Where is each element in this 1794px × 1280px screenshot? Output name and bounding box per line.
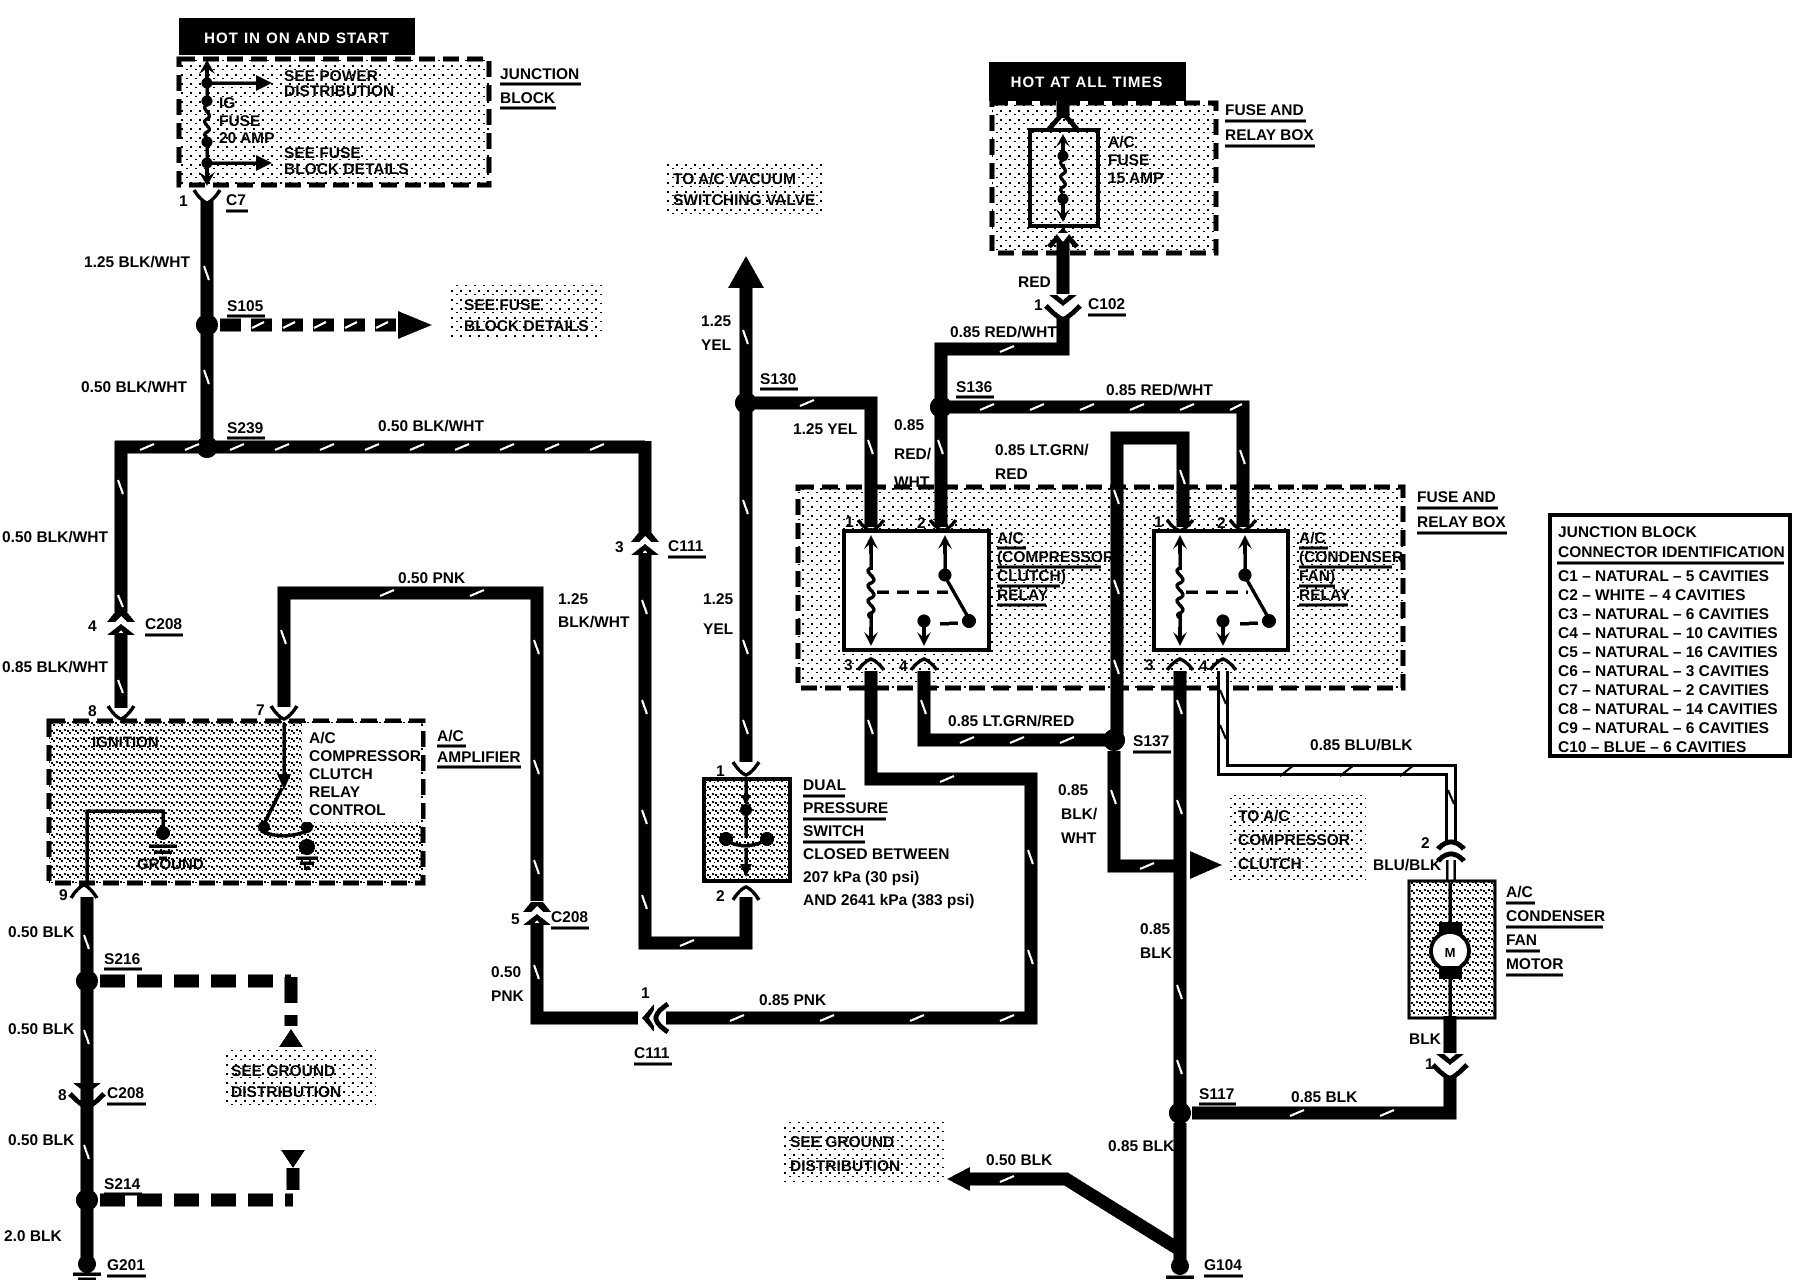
wire 0.50 PNK from amplifier pin 7 bbox=[281, 590, 539, 901]
svg-text:RELAY: RELAY bbox=[309, 784, 361, 801]
ground G104 bbox=[1166, 1257, 1243, 1280]
node S137 bbox=[1103, 729, 1171, 752]
svg-text:1: 1 bbox=[179, 193, 188, 210]
svg-text:G201: G201 bbox=[107, 1257, 145, 1274]
fuse and relay box middle bbox=[798, 487, 1403, 688]
wire S117 to G104 bbox=[1174, 1123, 1187, 1260]
fuse A/C 15A box bbox=[1030, 130, 1098, 226]
svg-text:1: 1 bbox=[1034, 297, 1043, 314]
svg-text:S214: S214 bbox=[104, 1176, 141, 1193]
svg-text:CLOSED BETWEEN: CLOSED BETWEEN bbox=[803, 846, 949, 863]
svg-text:S137: S137 bbox=[1133, 733, 1169, 750]
wire U1 pin 4 to S137 bbox=[921, 671, 1108, 743]
svg-text:WHT: WHT bbox=[894, 474, 930, 491]
svg-text:C2 – WHITE – 4 CAVITIES: C2 – WHITE – 4 CAVITIES bbox=[1558, 587, 1745, 604]
svg-text:2: 2 bbox=[1421, 835, 1430, 852]
amplifier internal ground symbol bbox=[149, 846, 177, 858]
node S239 bbox=[196, 420, 265, 458]
fuse IG squiggle bbox=[205, 105, 210, 137]
svg-text:DISTRIBUTION: DISTRIBUTION bbox=[284, 83, 394, 100]
svg-text:SEE FUSE: SEE FUSE bbox=[284, 145, 361, 162]
svg-text:1: 1 bbox=[1425, 1056, 1434, 1073]
svg-text:S239: S239 bbox=[227, 420, 264, 437]
arrow down internal bottom bbox=[199, 166, 215, 186]
node S136 bbox=[930, 379, 994, 418]
pin 7 connector bbox=[256, 702, 297, 719]
label 0.50 PNK vertical bbox=[491, 964, 525, 1005]
wire C208-4 to amplifier pin 8 bbox=[118, 633, 123, 708]
label A/C COMPRESSOR CLUTCH RELAY CONTROL bbox=[302, 723, 421, 822]
svg-text:9: 9 bbox=[59, 887, 68, 904]
junction block connector identification table bbox=[1550, 515, 1790, 756]
wire pin 9 down to G201 bbox=[84, 897, 89, 1258]
svg-text:0.50 BLK: 0.50 BLK bbox=[8, 924, 75, 941]
relay U1 A/C compressor clutch relay box bbox=[844, 531, 989, 650]
connector fuse bottom bbox=[1049, 231, 1077, 247]
svg-text:S136: S136 bbox=[956, 379, 993, 396]
connector C208 pin 5 bbox=[511, 902, 589, 928]
wire dashed S214 branch with up arrow bbox=[100, 1150, 305, 1200]
wire 0.50 BLK to G104 diagonal bbox=[966, 1176, 1180, 1250]
junction block box bbox=[179, 59, 489, 185]
relay U1 pin 1 connector bbox=[845, 514, 884, 531]
banner HOT IN ON AND START bbox=[179, 18, 415, 55]
pin 8 connector bbox=[88, 703, 134, 720]
svg-text:0.85 BLK/WHT: 0.85 BLK/WHT bbox=[2, 659, 108, 676]
wire S136 down to compressor relay pin 2 bbox=[938, 413, 943, 527]
svg-text:BLOCK: BLOCK bbox=[500, 90, 556, 107]
svg-text:A/C: A/C bbox=[1108, 134, 1135, 151]
svg-text:HOT IN ON AND START: HOT IN ON AND START bbox=[204, 30, 390, 47]
svg-text:C208: C208 bbox=[551, 909, 588, 926]
node S214 bbox=[76, 1176, 142, 1211]
svg-text:AMPLIFIER: AMPLIFIER bbox=[437, 749, 521, 766]
svg-text:C111: C111 bbox=[634, 1045, 670, 1062]
wire S239 left leg down to C208 bbox=[118, 441, 123, 612]
svg-text:0.50: 0.50 bbox=[491, 964, 521, 981]
svg-text:S216: S216 bbox=[104, 951, 141, 968]
svg-text:C3 – NATURAL – 6 CAVITIES: C3 – NATURAL – 6 CAVITIES bbox=[1558, 606, 1769, 623]
svg-text:G104: G104 bbox=[1204, 1257, 1242, 1274]
wire junction-block internal vertical bbox=[205, 70, 209, 180]
svg-text:C10 – BLUE – 6 CAVITIES: C10 – BLUE – 6 CAVITIES bbox=[1558, 739, 1746, 756]
svg-text:A/C: A/C bbox=[309, 730, 336, 747]
svg-text:C6 – NATURAL – 3 CAVITIES: C6 – NATURAL – 3 CAVITIES bbox=[1558, 663, 1769, 680]
svg-text:RELAY BOX: RELAY BOX bbox=[1417, 514, 1506, 531]
arrow up internal top bbox=[199, 60, 215, 80]
svg-text:CONTROL: CONTROL bbox=[309, 802, 386, 819]
svg-text:0.85: 0.85 bbox=[894, 417, 925, 434]
wire to vacuum valve with up arrow bbox=[728, 256, 764, 403]
svg-text:RELAY BOX: RELAY BOX bbox=[1225, 127, 1314, 144]
svg-text:RED: RED bbox=[995, 466, 1028, 483]
wire C208-5 down to C111-1 corner bbox=[534, 923, 638, 1018]
connector C208 pin 4 bbox=[88, 612, 183, 635]
svg-text:DUAL: DUAL bbox=[803, 777, 846, 794]
svg-text:1.25: 1.25 bbox=[703, 591, 734, 608]
svg-text:FUSE AND: FUSE AND bbox=[1225, 102, 1304, 119]
wire 0.85 BLU/BLK outlined condenser pin 4 to motor bbox=[1220, 671, 1454, 845]
label DUAL PRESSURE SWITCH bbox=[803, 777, 974, 909]
svg-text:SWITCH: SWITCH bbox=[803, 823, 864, 840]
relay U1 pin 2 connector bbox=[917, 515, 956, 532]
svg-text:S117: S117 bbox=[1199, 1086, 1234, 1103]
connector C111 pin 1 horizontal bbox=[634, 985, 672, 1064]
svg-text:1: 1 bbox=[716, 763, 725, 780]
svg-text:C208: C208 bbox=[107, 1085, 144, 1102]
svg-text:HOT AT ALL TIMES: HOT AT ALL TIMES bbox=[1011, 74, 1164, 91]
label 0.85 RED/WHT vertical bbox=[894, 417, 932, 491]
svg-text:WHT: WHT bbox=[1061, 830, 1097, 847]
svg-text:FUSE AND: FUSE AND bbox=[1417, 489, 1496, 506]
svg-text:A/C: A/C bbox=[437, 728, 464, 745]
wire connector 1 to S117 bbox=[1192, 1076, 1450, 1116]
svg-text:8: 8 bbox=[88, 703, 97, 720]
svg-text:FAN: FAN bbox=[1506, 932, 1537, 949]
svg-text:7: 7 bbox=[256, 702, 265, 719]
svg-text:(COMPRESSOR: (COMPRESSOR bbox=[997, 549, 1114, 566]
connector motor pin 1 bbox=[1425, 1054, 1467, 1078]
label TO A/C COMPRESSOR CLUTCH bbox=[1230, 795, 1366, 880]
svg-text:C102: C102 bbox=[1088, 296, 1125, 313]
svg-text:0.50 BLK: 0.50 BLK bbox=[8, 1132, 75, 1149]
relay U1 switch branch bbox=[917, 535, 976, 646]
svg-text:SEE GROUND: SEE GROUND bbox=[231, 1063, 335, 1080]
A/C amplifier box bbox=[49, 721, 423, 883]
label A/C (COMPRESSOR CLUTCH) RELAY bbox=[992, 520, 1114, 608]
svg-text:0.50 BLK/WHT: 0.50 BLK/WHT bbox=[81, 379, 187, 396]
label 0.85 LT.GRN/ RED bbox=[995, 442, 1089, 483]
label 0.85 BLK vertical bbox=[1140, 921, 1173, 962]
label IG FUSE 20 AMP bbox=[219, 95, 274, 147]
svg-text:CLUTCH): CLUTCH) bbox=[997, 568, 1066, 585]
svg-text:C4 – NATURAL – 10 CAVITIES: C4 – NATURAL – 10 CAVITIES bbox=[1558, 625, 1778, 642]
svg-text:C9 – NATURAL – 6 CAVITIES: C9 – NATURAL – 6 CAVITIES bbox=[1558, 720, 1769, 737]
svg-text:5: 5 bbox=[511, 911, 520, 928]
relay U2 pin 3 connector bbox=[1145, 657, 1193, 674]
label A/C AMPLIFIER bbox=[437, 728, 521, 767]
svg-text:RELAY: RELAY bbox=[1299, 587, 1351, 604]
label SEE GROUND DISTRIBUTION left bbox=[224, 1049, 376, 1107]
svg-text:2: 2 bbox=[716, 888, 725, 905]
svg-text:0.50 BLK: 0.50 BLK bbox=[8, 1021, 75, 1038]
svg-text:0.50 PNK: 0.50 PNK bbox=[398, 570, 466, 587]
svg-text:SWITCHING VALVE: SWITCHING VALVE bbox=[673, 192, 815, 209]
svg-text:AND 2641 kPa (383 psi): AND 2641 kPa (383 psi) bbox=[803, 892, 974, 909]
svg-text:0.85 LT.GRN/RED: 0.85 LT.GRN/RED bbox=[948, 713, 1074, 730]
svg-text:C8 – NATURAL – 14 CAVITIES: C8 – NATURAL – 14 CAVITIES bbox=[1558, 701, 1778, 718]
svg-text:C5 – NATURAL – 16 CAVITIES: C5 – NATURAL – 16 CAVITIES bbox=[1558, 644, 1778, 661]
node S117 bbox=[1169, 1086, 1236, 1124]
wire C102 to S136 bbox=[941, 317, 1063, 403]
relay U2 coil-switch dashed link bbox=[1186, 590, 1248, 594]
label SEE FUSE BLOCK DETAILS internal bbox=[284, 145, 409, 178]
relay U2 switch branch bbox=[1216, 535, 1276, 646]
svg-text:RELAY: RELAY bbox=[997, 587, 1049, 604]
svg-text:BLK: BLK bbox=[1140, 945, 1173, 962]
svg-text:15 AMP: 15 AMP bbox=[1108, 170, 1163, 187]
svg-text:0.85 RED/WHT: 0.85 RED/WHT bbox=[1106, 382, 1213, 399]
wire motor to connector 1 bbox=[1444, 1016, 1457, 1053]
relay U2 pin 4 connector bbox=[1199, 658, 1236, 675]
relay U2 pin 2 connector bbox=[1217, 515, 1256, 532]
svg-text:IGNITION: IGNITION bbox=[92, 734, 159, 751]
node S105 bbox=[196, 298, 265, 336]
label FUSE AND RELAY BOX top bbox=[1225, 102, 1315, 146]
svg-text:COMPRESSOR: COMPRESSOR bbox=[309, 748, 421, 765]
svg-text:1: 1 bbox=[641, 985, 650, 1002]
svg-text:BLK/WHT: BLK/WHT bbox=[558, 614, 630, 631]
wire fuse to C102 bbox=[1057, 233, 1070, 294]
svg-text:1.25: 1.25 bbox=[701, 313, 732, 330]
amplifier relay-control circuit bbox=[258, 723, 318, 868]
svg-text:CONNECTOR IDENTIFICATION: CONNECTOR IDENTIFICATION bbox=[1558, 544, 1785, 561]
label SEE GROUND DISTRIBUTION right bbox=[782, 1122, 945, 1182]
svg-text:DISTRIBUTION: DISTRIBUTION bbox=[790, 1158, 900, 1175]
svg-text:C208: C208 bbox=[145, 616, 182, 633]
label 1.25 YEL upper bbox=[701, 313, 732, 354]
svg-text:2: 2 bbox=[1217, 515, 1226, 532]
svg-text:COMPRESSOR: COMPRESSOR bbox=[1238, 832, 1350, 849]
svg-text:M: M bbox=[1445, 945, 1456, 960]
svg-text:0.85 LT.GRN/: 0.85 LT.GRN/ bbox=[995, 442, 1089, 459]
A/C condenser fan motor box bbox=[1409, 881, 1495, 1018]
label TO A/C VACUUM SWITCHING VALVE bbox=[665, 160, 825, 215]
svg-text:A/C: A/C bbox=[1299, 530, 1326, 547]
banner HOT AT ALL TIMES bbox=[989, 62, 1186, 101]
label SEE FUSE BLOCK DETAILS bbox=[451, 285, 603, 337]
relay U1 pin 4 connector bbox=[899, 658, 937, 675]
relay U1 coil branch bbox=[864, 535, 878, 646]
svg-text:RED/: RED/ bbox=[894, 446, 932, 463]
svg-text:SEE GROUND: SEE GROUND bbox=[790, 1134, 894, 1151]
wire C111-3 down to dual pressure switch pin 2 bbox=[642, 553, 746, 946]
svg-text:1.25 YEL: 1.25 YEL bbox=[793, 421, 857, 438]
node dot 1 bbox=[202, 78, 213, 89]
svg-text:8: 8 bbox=[58, 1087, 67, 1104]
svg-text:0.85 BLU/BLK: 0.85 BLU/BLK bbox=[1310, 737, 1413, 754]
label JUNCTION BLOCK bbox=[500, 66, 581, 108]
node dot 4 bbox=[202, 158, 213, 169]
svg-text:CLUTCH: CLUTCH bbox=[309, 766, 373, 783]
node S130 bbox=[735, 371, 798, 414]
svg-text:GROUND: GROUND bbox=[137, 856, 204, 873]
label SEE POWER DISTRIBUTION bbox=[284, 68, 394, 100]
svg-text:BLOCK DETAILS: BLOCK DETAILS bbox=[464, 318, 589, 335]
label A/C CONDENSER FAN MOTOR bbox=[1506, 884, 1605, 975]
connector C102 pin 1 bbox=[1034, 295, 1126, 319]
fuse and relay box top bbox=[992, 103, 1216, 253]
arrow see ground distribution left-pointing bbox=[947, 1167, 970, 1191]
dual pressure switch box bbox=[704, 779, 790, 881]
motor M1 internals bbox=[1431, 883, 1469, 1018]
pin 2 connector pressure switch bbox=[716, 887, 759, 905]
svg-text:S130: S130 bbox=[760, 371, 796, 388]
svg-text:JUNCTION BLOCK: JUNCTION BLOCK bbox=[1558, 524, 1697, 541]
svg-text:BLK/: BLK/ bbox=[1061, 806, 1098, 823]
svg-text:FUSE: FUSE bbox=[1108, 152, 1149, 169]
svg-text:0.85: 0.85 bbox=[1058, 782, 1089, 799]
svg-text:2.0 BLK: 2.0 BLK bbox=[4, 1228, 63, 1245]
svg-text:S105: S105 bbox=[227, 298, 264, 315]
pressure switch internals bbox=[719, 781, 774, 877]
connector BLU/BLK pin 2 bbox=[1421, 835, 1464, 861]
svg-text:0.85 BLK: 0.85 BLK bbox=[1108, 1138, 1175, 1155]
node dot 2 IG bbox=[202, 96, 213, 107]
wire S130 to relay pin 1 bbox=[752, 400, 873, 527]
svg-text:0.85: 0.85 bbox=[1140, 921, 1171, 938]
svg-text:0.85 BLK: 0.85 BLK bbox=[1291, 1089, 1358, 1106]
svg-text:4: 4 bbox=[899, 658, 908, 675]
svg-text:1.25: 1.25 bbox=[558, 591, 589, 608]
wire S130 down to pressure switch pin 1 bbox=[743, 409, 748, 762]
svg-text:IG: IG bbox=[219, 95, 235, 112]
svg-text:(CONDENSER: (CONDENSER bbox=[1299, 549, 1403, 566]
wire dashed S105 see-fuse arrow bbox=[220, 311, 432, 339]
svg-text:3: 3 bbox=[615, 539, 624, 556]
node dot 3 bbox=[202, 137, 213, 148]
svg-text:BLK: BLK bbox=[1409, 1031, 1442, 1048]
svg-text:1.25 BLK/WHT: 1.25 BLK/WHT bbox=[84, 254, 190, 271]
amplifier internal ground wire bbox=[87, 811, 170, 881]
svg-text:TO A/C: TO A/C bbox=[1238, 808, 1290, 825]
connector C7 bbox=[179, 190, 248, 211]
wire BLU/BLK connector to motor box bbox=[1446, 860, 1456, 884]
fuse element bbox=[1056, 134, 1070, 222]
svg-text:YEL: YEL bbox=[703, 621, 733, 638]
svg-text:FUSE: FUSE bbox=[219, 113, 260, 130]
svg-text:0.50 BLK/WHT: 0.50 BLK/WHT bbox=[2, 529, 108, 546]
svg-text:4: 4 bbox=[1199, 658, 1208, 675]
svg-text:MOTOR: MOTOR bbox=[1506, 956, 1563, 973]
wire S239 right leg down to C111-3 bbox=[639, 441, 652, 533]
connector C111 pin 3 bbox=[615, 532, 706, 557]
svg-text:2: 2 bbox=[917, 515, 926, 532]
wire S239 horizontal bbox=[115, 441, 645, 454]
wire S136 to condenser relay pin 2 bbox=[950, 404, 1245, 527]
arrow to A/C compressor clutch bbox=[1190, 851, 1222, 879]
svg-text:SEE FUSE: SEE FUSE bbox=[464, 297, 541, 314]
svg-text:YEL: YEL bbox=[701, 337, 731, 354]
connector banner to fuse bbox=[1049, 101, 1077, 129]
svg-text:BLOCK DETAILS: BLOCK DETAILS bbox=[284, 161, 409, 178]
ground G201 bbox=[73, 1255, 146, 1280]
wire 0.85 BLK condenser pin 3 to S117 bbox=[1177, 671, 1182, 1113]
relay U2 coil branch bbox=[1173, 535, 1187, 646]
svg-text:20 AMP: 20 AMP bbox=[219, 130, 274, 147]
svg-text:DISTRIBUTION: DISTRIBUTION bbox=[231, 1084, 341, 1101]
svg-text:RED: RED bbox=[1018, 274, 1051, 291]
svg-text:A/C: A/C bbox=[1506, 884, 1533, 901]
wire dashed S216 to ground-distribution arrow bbox=[100, 977, 303, 1047]
svg-text:BLU/BLK: BLU/BLK bbox=[1373, 857, 1442, 874]
svg-text:0.50 BLK: 0.50 BLK bbox=[986, 1152, 1053, 1169]
relay U2 pin 1 connector bbox=[1154, 514, 1193, 531]
svg-text:C7: C7 bbox=[226, 192, 246, 209]
wire 0.85 PNK from C111-1 to relay pin 3 bbox=[666, 671, 1033, 1021]
svg-text:207 kPa (30 psi): 207 kPa (30 psi) bbox=[803, 869, 919, 886]
arrow right see power distribution bbox=[207, 75, 272, 91]
node S216 bbox=[76, 951, 142, 992]
svg-text:A/C: A/C bbox=[997, 530, 1024, 547]
pin 9 connector bbox=[59, 885, 97, 904]
svg-text:4: 4 bbox=[88, 618, 97, 635]
wire S137 down to compressor clutch arrow bbox=[1111, 751, 1174, 869]
svg-text:1: 1 bbox=[845, 514, 854, 531]
arrow right see fuse block details bbox=[207, 155, 272, 171]
connector C208 pin 8 bbox=[58, 1083, 146, 1107]
label 1.25 YEL mid bbox=[703, 591, 734, 638]
label 1.25 BLK/WHT vertical bbox=[558, 591, 630, 631]
wire C7 to S239 bbox=[201, 201, 214, 447]
relay U1 pin 3 connector bbox=[844, 657, 884, 674]
svg-text:1: 1 bbox=[1154, 514, 1163, 531]
relay U1 coil-switch dashed link bbox=[877, 590, 948, 594]
svg-text:3: 3 bbox=[1145, 657, 1154, 674]
svg-text:0.85 PNK: 0.85 PNK bbox=[759, 992, 827, 1009]
svg-text:C1 – NATURAL – 5 CAVITIES: C1 – NATURAL – 5 CAVITIES bbox=[1558, 568, 1769, 585]
svg-text:0.50 BLK/WHT: 0.50 BLK/WHT bbox=[378, 418, 484, 435]
svg-text:TO A/C VACUUM: TO A/C VACUUM bbox=[673, 171, 796, 188]
label A/C (CONDENSER FAN) RELAY bbox=[1294, 520, 1403, 608]
svg-text:0.85 RED/WHT: 0.85 RED/WHT bbox=[950, 324, 1057, 341]
svg-text:PRESSURE: PRESSURE bbox=[803, 800, 888, 817]
svg-text:CLUTCH: CLUTCH bbox=[1238, 856, 1302, 873]
svg-text:FAN): FAN) bbox=[1299, 568, 1335, 585]
svg-text:C7 – NATURAL – 2 CAVITIES: C7 – NATURAL – 2 CAVITIES bbox=[1558, 682, 1769, 699]
label FUSE AND RELAY BOX middle bbox=[1417, 489, 1507, 533]
wire LT.GRN/RED n-shape to condenser pin 1 bbox=[1114, 438, 1185, 734]
svg-text:CONDENSER: CONDENSER bbox=[1506, 908, 1605, 925]
svg-text:PNK: PNK bbox=[491, 988, 525, 1005]
svg-text:JUNCTION: JUNCTION bbox=[500, 66, 579, 83]
svg-text:3: 3 bbox=[844, 657, 853, 674]
relay U2 A/C condenser fan relay box bbox=[1154, 531, 1288, 650]
label A/C FUSE 15 AMP bbox=[1108, 134, 1163, 187]
pin 1 connector pressure switch bbox=[716, 762, 759, 780]
svg-text:C111: C111 bbox=[668, 538, 704, 555]
label 0.85 BLK/WHT vertical bbox=[1058, 782, 1098, 847]
